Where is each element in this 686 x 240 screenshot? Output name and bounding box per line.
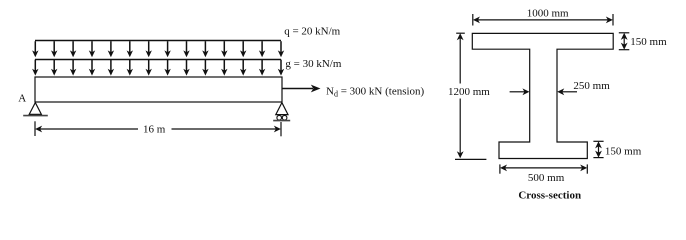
label 1000 mm [527, 8, 569, 20]
dimension 500 mm ticks [500, 164, 587, 173]
label 150 mm bottom [605, 145, 642, 157]
svg-text:Nd = 300 kN (tension): Nd = 300 kN (tension) [326, 85, 425, 98]
svg-text:1000 mm: 1000 mm [527, 8, 569, 20]
dimension 150 mm top flange [619, 33, 630, 50]
distributed load g arrows [32, 60, 284, 76]
axial force arrow Nd [282, 85, 321, 93]
dimension 1000 mm ticks [473, 14, 613, 26]
roller support at B [273, 103, 290, 121]
dimension 500 mm line [501, 165, 587, 170]
dimension 250 mm web leaders [510, 89, 577, 94]
svg-text:q = 20 kN/m: q = 20 kN/m [284, 25, 340, 37]
load line g [35, 59, 281, 61]
caption Cross-section [518, 190, 581, 202]
label 16 m [143, 124, 166, 136]
svg-text:16 m: 16 m [143, 124, 166, 136]
label 250 mm [573, 80, 610, 92]
dimension 1200 mm [455, 33, 486, 159]
pin support at A [23, 103, 48, 116]
svg-text:500 mm: 500 mm [528, 172, 565, 184]
svg-text:250 mm: 250 mm [573, 80, 610, 92]
dimension 150 mm bottom flange [593, 141, 603, 157]
node A label [18, 92, 26, 104]
label q = 20 kN/m [284, 25, 340, 37]
beam [35, 77, 282, 102]
dimension 16 m right segment [172, 126, 281, 131]
dimension 16 m right tick [280, 122, 282, 136]
label g = 30 kN/m [285, 58, 341, 70]
label Nd = 300 kN (tension) [326, 85, 425, 98]
dimension 16 m left segment [36, 126, 138, 131]
svg-text:150 mm: 150 mm [605, 145, 642, 157]
I-beam cross-section outline [472, 33, 613, 158]
svg-text:Cross-section: Cross-section [518, 190, 581, 202]
label 500 mm [528, 172, 565, 184]
distributed load q arrows [32, 41, 284, 57]
dimension 1000 mm line [474, 17, 613, 22]
svg-text:150 mm: 150 mm [630, 36, 667, 48]
svg-text:1200 mm: 1200 mm [448, 86, 490, 98]
svg-text:A: A [18, 92, 26, 104]
label 150 mm top [630, 36, 667, 48]
svg-text:g = 30 kN/m: g = 30 kN/m [285, 58, 341, 70]
dimension 16 m left tick [34, 121, 36, 136]
label 1200 mm [448, 86, 490, 98]
load line q [35, 40, 281, 42]
